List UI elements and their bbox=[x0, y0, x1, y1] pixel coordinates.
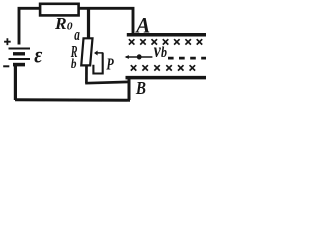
svg-text:ε: ε bbox=[34, 42, 42, 68]
svg-text:B: B bbox=[135, 78, 146, 99]
svg-text:P: P bbox=[106, 56, 113, 74]
svg-text:A: A bbox=[134, 13, 150, 37]
svg-text:b: b bbox=[71, 57, 77, 72]
svg-text:b: b bbox=[161, 45, 167, 61]
svg-text:0: 0 bbox=[67, 20, 73, 32]
svg-text:R: R bbox=[54, 14, 67, 33]
